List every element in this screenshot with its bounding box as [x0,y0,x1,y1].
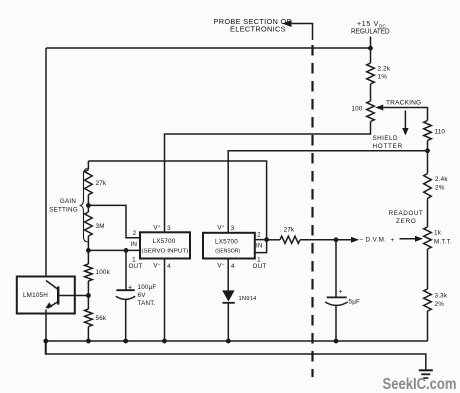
label GAIN SETTING with brace [49,169,87,243]
svg-text:IN: IN [130,241,137,248]
potentiometer 100 TRACKING [351,101,427,122]
label +15 VDC REGULATED [351,21,390,36]
svg-text:2: 2 [257,232,261,239]
resistor 2.2k 1% [367,48,391,101]
svg-text:GAIN: GAIN [60,198,76,205]
node junction 27k/5uF/DVM [334,237,339,242]
wire +15V stub [370,37,372,49]
svg-text:M.T.T.: M.T.T. [434,239,452,246]
resistor 56k [85,296,107,342]
node junction 3M/100k/OUT [86,248,91,253]
svg-text:3M: 3M [96,223,105,230]
wire ground rail 2 to earth [46,341,426,370]
node junction 110/2.4k [425,148,430,153]
svg-text:TANT.: TANT. [138,300,156,307]
label - D.V.M. + [360,237,395,244]
dashed separator line [311,45,313,377]
wire +15V supply rail top [46,47,371,49]
svg-text:IN: IN [256,243,263,250]
wire gain network top (line C) to IC2 IN [88,161,266,240]
resistor 3M [85,205,105,250]
node junction U2 IN [264,237,269,242]
svg-text:100µF: 100µF [138,284,157,291]
svg-text:REGULATED: REGULATED [351,29,390,36]
node junction base/100k/56k [86,293,91,298]
svg-text:110: 110 [435,129,446,136]
svg-text:6V: 6V [138,292,147,299]
potentiometer 1k M.T.T. readout zero [424,227,452,289]
svg-text:27k: 27k [284,227,295,234]
transistor Q1 inside LM105H [45,281,88,309]
svg-text:4: 4 [167,263,171,270]
wire DVM to readout pot wiper [400,236,424,242]
node junction emitter/rail [43,339,48,344]
resistor 3.3k 2% [424,289,448,341]
svg-text:LX5700: LX5700 [153,238,176,245]
svg-text:SeekIC.com: SeekIC.com [383,376,457,393]
regulator LM105H box [17,277,75,314]
label PROBE SECTION OF ELECTRONICS with arrow [214,17,313,40]
svg-text:2.4k: 2.4k [435,176,448,183]
svg-text:LX5700: LX5700 [215,239,238,246]
wire U1 V- down [164,259,166,342]
svg-text:ZERO: ZERO [396,218,417,225]
resistor 100k [85,250,111,295]
capacitor 5uF [325,240,360,341]
wire IC2 V+ shield line (line B) [228,151,427,233]
svg-text:56k: 56k [96,315,107,322]
resistor 27k to DVM [267,227,359,244]
node junction OUT/cap [124,248,129,253]
wire 27k/3M junction to IC1 IN [88,205,140,237]
svg-text:2%: 2% [435,301,445,308]
wire left column to LM105H collector [45,48,47,277]
wire IC1 OUT feedback [88,249,140,251]
svg-text:TRACKING: TRACKING [386,100,421,107]
svg-text:4: 4 [231,263,235,270]
svg-text:OUT: OUT [129,263,143,270]
node junction 5uF/rail [334,339,339,344]
svg-text:LM105H: LM105H [23,292,48,299]
svg-text:HOTTER: HOTTER [373,143,403,150]
svg-text:1N914: 1N914 [239,296,258,302]
svg-text:+: + [339,289,343,296]
svg-text:+: + [128,285,132,292]
svg-text:OUT: OUT [253,263,267,270]
ground symbol [419,370,433,378]
svg-text:1k: 1k [434,230,442,237]
svg-text:ELECTRONICS: ELECTRONICS [230,25,286,34]
op-amp U1 LX5700 servo input box [140,232,190,258]
svg-text:SHIELD: SHIELD [373,135,398,142]
svg-text:READOUT: READOUT [389,210,424,217]
svg-text:100k: 100k [96,269,111,276]
svg-text:100: 100 [351,106,362,113]
svg-text:3: 3 [231,225,235,232]
wire ground rail 1 [46,340,428,342]
svg-text:2%: 2% [435,185,445,192]
op-amp U2 LX5700 sensor box [203,233,255,259]
label TRACKING with down arrow [386,100,421,136]
svg-text:1%: 1% [378,74,388,81]
diode 1N914 [222,259,257,342]
node junction 56k/rail [86,339,91,344]
svg-text:–: – [360,237,364,244]
wire LM105H emitter down [45,310,47,355]
svg-text:+: + [391,237,395,244]
svg-text:5µF: 5µF [349,299,361,306]
svg-text:3: 3 [167,225,171,232]
resistor 27k gain [85,161,107,205]
resistor 2.4k 2% [424,151,449,227]
wire U2 IN loop [255,240,267,253]
node junction +15V [368,46,373,51]
pin labels U1 [129,224,172,270]
svg-text:3.3k: 3.3k [435,293,448,300]
svg-text:(SENSOR): (SENSOR) [215,249,240,255]
resistor 110 [424,121,446,151]
node junction diode/rail [226,339,231,344]
capacitor 100uF 6V TANT [116,250,157,341]
node junction U1 V-/rail [162,339,167,344]
svg-text:SETTING: SETTING [49,207,78,214]
node junction cap/rail [123,339,128,344]
svg-text:27k: 27k [96,180,107,187]
wire pot bottom to IC1 V+ (line A) [165,122,371,233]
label READOUT ZERO [389,210,424,225]
pin labels U2 [217,224,266,270]
svg-text:D.V.M.: D.V.M. [366,237,387,244]
svg-text:(SERVO INPUT): (SERVO INPUT) [141,249,188,255]
svg-text:2: 2 [133,230,137,237]
svg-text:2.2k: 2.2k [378,66,391,73]
label SHIELD HOTTER [373,135,403,150]
node junction 27k/3M [86,203,91,208]
